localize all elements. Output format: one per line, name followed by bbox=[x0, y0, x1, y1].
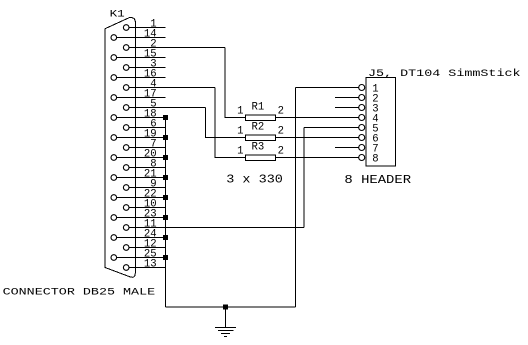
junction at ground symbol bbox=[223, 305, 228, 310]
svg-text:3 x 330: 3 x 330 bbox=[226, 172, 283, 186]
K1 pin 17 circle bbox=[111, 95, 117, 101]
K1 pin 22 circle bbox=[111, 195, 117, 201]
svg-text:2: 2 bbox=[278, 146, 284, 158]
wire J5 pin 7 bbox=[335, 147, 359, 149]
svg-text:R2: R2 bbox=[252, 122, 265, 134]
wire K1 pin 3 bbox=[129, 67, 166, 69]
K1 pin 24 circle bbox=[111, 235, 117, 241]
wire K1 pin 24 bbox=[117, 237, 166, 239]
wire K1 pin 20 bbox=[117, 157, 166, 159]
junction at K1 pin 22 on ground bus bbox=[163, 195, 168, 200]
svg-text:1: 1 bbox=[237, 106, 243, 118]
wire J5 pin 5 bbox=[304, 127, 359, 129]
wire J5 pin 1 down to ground bbox=[295, 88, 297, 308]
wire K1 pin 19 bbox=[117, 137, 166, 139]
svg-text:8 HEADER: 8 HEADER bbox=[344, 173, 411, 187]
J5 pin 1 circle bbox=[359, 85, 365, 91]
K1 pin 18 circle bbox=[111, 115, 117, 121]
K1 pin 3 circle bbox=[123, 65, 129, 71]
resistor R2 bbox=[245, 135, 275, 141]
wire K1 pin 2 down to R1 bbox=[225, 48, 245, 118]
J5 pin 7 circle bbox=[359, 145, 365, 151]
wire R2 pin 2 to J5 bbox=[276, 137, 359, 139]
wire J5 pin 3 bbox=[335, 107, 359, 109]
wire K1 pin 18 bbox=[117, 117, 166, 119]
K1 pin 14 circle bbox=[111, 35, 117, 41]
svg-text:R1: R1 bbox=[252, 102, 265, 114]
ground symbol bbox=[215, 307, 236, 336]
wire ground horizontal bbox=[166, 306, 296, 308]
K1 pin 8 circle bbox=[123, 165, 129, 171]
svg-text:2: 2 bbox=[278, 106, 284, 118]
K1 pin 10 circle bbox=[123, 205, 129, 211]
wire K1 pin 9 bbox=[129, 187, 166, 189]
K1 pin 19 circle bbox=[111, 135, 117, 141]
wire K1 pin 21 bbox=[117, 177, 166, 179]
resistor R3 bbox=[245, 155, 275, 161]
wire K1 pin 15 bbox=[117, 57, 166, 59]
junction at K1 pin 19 on ground bus bbox=[163, 135, 168, 140]
K1 pin 15 circle bbox=[111, 55, 117, 61]
wire K1 pin 5 down to R2 bbox=[206, 108, 246, 138]
K1 pin 25 circle bbox=[111, 255, 117, 261]
wire R1 pin 2 to J5 bbox=[276, 117, 359, 119]
svg-text:1: 1 bbox=[237, 126, 243, 138]
svg-text:K1: K1 bbox=[110, 9, 125, 20]
svg-text:1: 1 bbox=[237, 146, 243, 158]
svg-text:8: 8 bbox=[372, 153, 378, 165]
wire J5 pin 2 bbox=[335, 97, 359, 99]
connector K1 DB25 body outline bbox=[105, 17, 136, 277]
J5 pin 8 circle bbox=[359, 155, 365, 161]
wire K1 pin 7 bbox=[129, 147, 166, 149]
junction at K1 pin 21 on ground bus bbox=[163, 175, 168, 180]
J5 pin 5 circle bbox=[359, 125, 365, 131]
K1 pin 12 circle bbox=[123, 245, 129, 251]
wire K1 pin 13 bbox=[129, 267, 166, 269]
wire K1 pin 4 down to R3 bbox=[215, 88, 245, 158]
wire K1 pin 25 bbox=[117, 257, 166, 259]
junction at K1 pin 24 on ground bus bbox=[163, 235, 168, 240]
wire K1 pin 10 bbox=[129, 207, 166, 209]
K1 pin 1 circle bbox=[123, 25, 129, 31]
J5 pin 3 circle bbox=[359, 105, 365, 111]
K1 pin 11 circle bbox=[123, 225, 129, 231]
J5 pin 2 circle bbox=[359, 95, 365, 101]
K1 pin 5 circle bbox=[123, 105, 129, 111]
wire K1 pin 12 bbox=[129, 247, 166, 249]
svg-text:CONNECTOR DB25 MALE: CONNECTOR DB25 MALE bbox=[3, 286, 156, 298]
wire K1 pin 22 bbox=[117, 197, 166, 199]
K1 pin 9 circle bbox=[123, 185, 129, 191]
junction at K1 pin 20 on ground bus bbox=[163, 155, 168, 160]
resistor R1 bbox=[245, 115, 275, 121]
svg-text:13: 13 bbox=[144, 258, 157, 270]
K1 pin 7 circle bbox=[123, 145, 129, 151]
K1 pin 4 circle bbox=[123, 85, 129, 91]
wire K1 pin 23 bbox=[117, 217, 166, 219]
ground bus vertical wire (K1 pins 18,6,19,7,20,8,21,9,22,10,23,24,12,25,13) bbox=[165, 118, 167, 308]
wire K1 pin 14 bbox=[117, 37, 166, 39]
wire K1 pin 5 bbox=[129, 107, 206, 109]
header J5 body bbox=[366, 78, 396, 167]
wire J5 pin 1 bbox=[296, 87, 359, 89]
wire K1 pin 16 bbox=[117, 77, 166, 79]
K1 pin 6 circle bbox=[123, 125, 129, 131]
K1 pin 20 circle bbox=[111, 155, 117, 161]
wire K1 pin 4 bbox=[129, 87, 215, 89]
wire K1 pin 6 bbox=[129, 127, 166, 129]
wire K1 pin 1 bbox=[129, 27, 166, 29]
K1 pin 16 circle bbox=[111, 75, 117, 81]
svg-text:2: 2 bbox=[278, 126, 284, 138]
junction at K1 pin 18 on ground bus bbox=[163, 115, 168, 120]
wire K1 pin 11 bbox=[129, 227, 304, 229]
svg-text:R3: R3 bbox=[252, 142, 265, 154]
K1 pin 13 circle bbox=[123, 265, 129, 271]
wire K1 pin 11 up to J5 pin 5 bbox=[303, 128, 305, 228]
junction at K1 pin 25 on ground bus bbox=[163, 255, 168, 260]
K1 pin 21 circle bbox=[111, 175, 117, 181]
wire K1 pin 2 bbox=[129, 47, 225, 49]
K1 pin 23 circle bbox=[111, 215, 117, 221]
wire K1 pin 8 bbox=[129, 167, 166, 169]
wire R3 pin 2 to J5 bbox=[276, 157, 359, 159]
K1 pin 2 circle bbox=[123, 45, 129, 51]
junction at K1 pin 23 on ground bus bbox=[163, 215, 168, 220]
wire K1 pin 17 bbox=[117, 97, 166, 99]
J5 pin 6 circle bbox=[359, 135, 365, 141]
J5 pin 4 circle bbox=[359, 115, 365, 121]
